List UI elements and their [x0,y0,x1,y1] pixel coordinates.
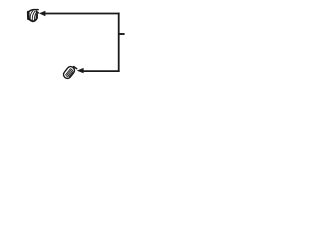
tick: branch stub on trunk [119,33,125,35]
wire: top horizontal leader line [44,13,120,15]
clip icon 1 (coiled grommet with top tab, top left) [28,10,39,22]
wire: bottom horizontal leader line [84,70,120,72]
arrowhead: top leader arrow pointing left at clip 1 [39,11,45,17]
clip icon 2 (tilted capsule clip, bottom) [62,65,77,80]
arrowhead: bottom leader arrow pointing left at clip 2 [77,68,84,73]
wire: right vertical trunk [118,13,120,72]
